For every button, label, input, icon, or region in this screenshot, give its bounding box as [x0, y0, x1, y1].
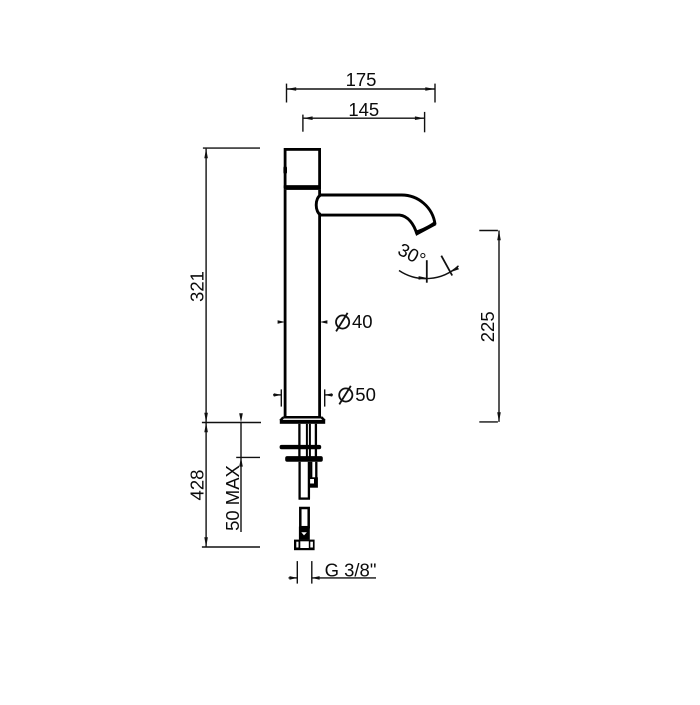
- side rod with clip: [311, 462, 316, 478]
- washer: [280, 445, 322, 449]
- deck extension line: [202, 422, 261, 424]
- dimension G 3/8: [289, 561, 377, 584]
- tailpiece rod: [300, 508, 308, 527]
- dimension diameter 50: [273, 389, 333, 406]
- svg-text:40: 40: [352, 311, 373, 332]
- shank tubes: [299, 424, 316, 458]
- tailpiece nut: [294, 540, 315, 551]
- svg-text:428: 428: [187, 470, 208, 501]
- body left edge: [284, 190, 287, 418]
- dimension 145: [303, 112, 425, 132]
- dimension 321: [203, 148, 260, 422]
- svg-text:50 MAX: 50 MAX: [222, 465, 243, 531]
- svg-text:321: 321: [187, 271, 208, 302]
- bottom extension line: [202, 546, 260, 548]
- tailpiece thread: [299, 527, 310, 540]
- base flange: [280, 417, 324, 420]
- angle arc: [399, 266, 459, 279]
- handle tick: [283, 166, 287, 174]
- dimension 50 MAX: [239, 413, 243, 422]
- tube below nut: [299, 462, 311, 499]
- slanted tick: [441, 256, 452, 276]
- cap joint band: [284, 185, 321, 190]
- spout tip face: [416, 222, 436, 236]
- dimension 428: [205, 423, 207, 548]
- mounting nut: [285, 456, 323, 462]
- dimension diameter 40: [278, 320, 286, 323]
- body right edge upper: [318, 190, 321, 197]
- body right edge lower: [318, 213, 321, 418]
- spout: [316, 195, 435, 234]
- dimension 225: [479, 231, 499, 422]
- svg-text:175: 175: [346, 69, 377, 90]
- svg-text:225: 225: [477, 311, 498, 342]
- dimension 175: [287, 84, 436, 103]
- svg-text:G 3/8": G 3/8": [325, 559, 377, 580]
- faucet cap (handle): [285, 149, 320, 186]
- svg-text:50: 50: [355, 384, 376, 405]
- vertical tick: [426, 260, 428, 283]
- svg-text:145: 145: [348, 99, 379, 120]
- base flange band: [280, 420, 325, 424]
- arc arrowheads: [419, 276, 427, 280]
